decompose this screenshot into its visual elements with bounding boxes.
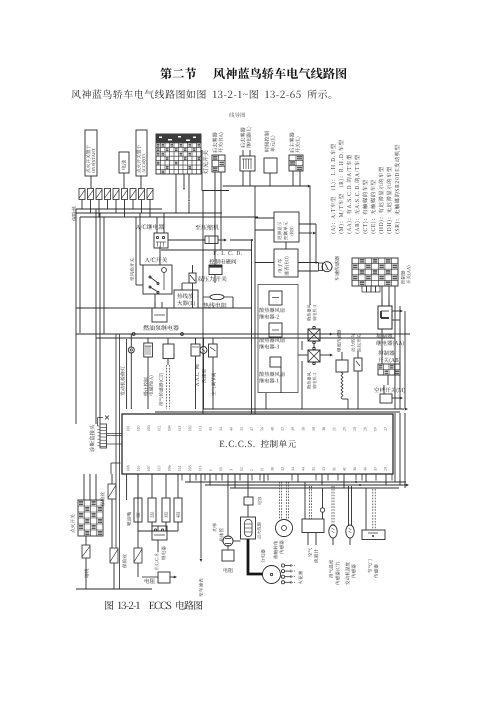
fuse F2 <box>88 189 94 200</box>
label inhibitor switch line1 抑制器 <box>378 350 394 355</box>
wires relay drops <box>243 171 250 186</box>
wire left trunk 2 <box>79 217 81 333</box>
label AAC valve A.A.C.阀 <box>195 365 199 386</box>
label air regulator 空气调节阀 <box>211 373 215 396</box>
wires bottom fuse connections <box>114 474 138 589</box>
wire F11 to bus <box>85 558 87 589</box>
label A/C relay <box>136 224 164 230</box>
fuse bottom F12 <box>110 548 118 563</box>
label fan relay-3 line2 <box>259 344 279 349</box>
wire right trunk x400 <box>399 306 401 409</box>
wire ps drop <box>357 371 359 409</box>
label distributor 分电器 <box>261 549 265 563</box>
injector cylinder 2 <box>148 474 156 531</box>
wires G3 drops <box>293 171 300 186</box>
wire trunk x310 <box>309 186 311 305</box>
switch grid ignition switch <box>78 500 103 536</box>
wire left trunk 1 <box>75 209 77 424</box>
relay rear defogger relay L <box>240 127 255 171</box>
distributor cap circle <box>263 566 281 584</box>
label to fan switch 至风扇开关 <box>130 258 134 281</box>
capacitor near coil <box>244 474 253 517</box>
bus wire lighting horizontal <box>223 185 311 188</box>
legend line 2 <box>339 140 345 233</box>
label idle-stop 2col <box>144 376 154 396</box>
sensor crank angle sensor <box>276 482 293 537</box>
box ignition switch ON/START <box>85 130 97 176</box>
wire ign grid drop 1 <box>85 536 87 545</box>
transistor power transistor <box>223 474 241 546</box>
wires fan motor arrows <box>298 333 333 357</box>
label fan relay-1 line1 <box>259 372 284 377</box>
valve air regulator 空气调节阀 <box>209 338 218 409</box>
fuse/connector matrix table <box>156 134 201 174</box>
label power transistor vertical <box>212 523 223 542</box>
switch grid rear defogger switch RA <box>212 132 225 172</box>
label to compressor 至压缩机 <box>195 224 219 230</box>
label fan relay-2 line2 <box>259 314 279 319</box>
switch A/C switch box <box>143 265 172 294</box>
wires ECCS to ignition grid <box>84 474 96 500</box>
label inhibitor relay line1 抑制器 <box>376 333 392 338</box>
box electronic speedometer EO <box>274 249 298 277</box>
label control solenoid 控制电磁阀 <box>209 259 236 264</box>
label 灯光开关 light switch <box>203 150 209 174</box>
meter air flow meter <box>302 482 325 545</box>
wires ECCS bottom stubs <box>182 474 392 481</box>
injector cylinder 3 <box>162 474 170 531</box>
legend line 1 <box>331 144 337 233</box>
caption 图13-2-1 ECCS电路图 <box>105 601 202 610</box>
wire time unit drop <box>269 173 271 186</box>
injector cylinder 4 <box>174 474 182 531</box>
wire box-to-fuse A <box>90 176 92 188</box>
sensor exhaust sensor CT <box>163 338 174 365</box>
box time control unit L <box>264 131 277 173</box>
wire light switch drop <box>201 150 203 191</box>
fuse F9 <box>147 189 153 200</box>
legend line 7 <box>379 167 385 234</box>
sensor vehicle speed sensor <box>319 256 340 281</box>
legend line 3 <box>347 155 353 234</box>
label 保险丝 upper <box>100 492 104 506</box>
label exhaust temp 2col <box>329 560 340 585</box>
bus wire above ECCS 2 <box>155 411 400 413</box>
label pump 洗涤泵 <box>202 369 206 383</box>
fuse below ECCS F10 <box>108 474 116 548</box>
bus wire below ECCS 2 <box>205 484 409 487</box>
box hysteresis display control unit RB <box>274 212 299 242</box>
fuse F4 <box>105 189 111 200</box>
pin numbers ECCS top row <box>127 425 387 431</box>
relay A/C relay <box>154 213 168 248</box>
sensor exhaust temperature CT <box>329 486 337 545</box>
resistor bottom box <box>142 572 177 583</box>
wire exhaust sensor shielded pair <box>167 365 170 409</box>
label ignition switch 点火开关 <box>70 514 74 532</box>
sensor engine temperature <box>346 486 354 545</box>
label fan motor-2 vertical <box>307 372 316 389</box>
label crank angle 2col <box>273 540 283 558</box>
fuse F7 <box>130 189 136 200</box>
label injectors 喷油嘴 <box>127 512 131 526</box>
wire left trunk 3 <box>95 209 97 424</box>
sensor knock sensor <box>336 352 348 372</box>
label air flow 2col <box>308 548 318 563</box>
fuse F1 <box>79 189 85 200</box>
label engine temp 2col <box>345 562 355 585</box>
fuse F5 <box>113 189 119 200</box>
IC ECCS control unit box <box>122 414 393 474</box>
legend line 6 <box>371 180 377 233</box>
relay radiator fan relay-3 <box>269 323 282 337</box>
switch grid rear defogger switch L <box>289 132 303 171</box>
wires inhibitor connections <box>382 310 403 385</box>
legend line 9 <box>394 145 400 233</box>
bus wire mid horizontal 1 <box>76 333 410 335</box>
wire to speedometer <box>200 474 203 562</box>
label 保险丝 bottom <box>122 554 126 568</box>
solenoid FICD valve <box>209 265 222 283</box>
coil ignition coil <box>241 517 256 539</box>
pump component circle <box>200 338 207 409</box>
bus wire horizontal 2 <box>76 212 222 214</box>
injector cylinder 1 <box>134 474 142 531</box>
label fan relay-3 line1 <box>259 338 284 343</box>
outline fan relay section <box>258 285 298 393</box>
fuse F3 <box>96 189 102 200</box>
small note 线导图 <box>229 112 245 117</box>
wires left vertical pair <box>116 334 120 589</box>
wire trunk x203 <box>202 191 204 415</box>
wires hysteresis connections <box>255 218 319 271</box>
box ignition switch ACC/ON <box>136 130 147 176</box>
label ignition coil 点火线圈 <box>257 522 261 538</box>
fuse F6 <box>122 189 128 200</box>
bus wire below ECCS 1 <box>185 481 406 483</box>
bus wire horizontal 1 <box>76 208 162 210</box>
legend line 4 <box>355 155 361 233</box>
switch dual pressure switch <box>189 265 196 290</box>
fuse bottom F11 <box>82 545 90 558</box>
fuse bottom F13 <box>134 548 142 563</box>
legend line 8 <box>387 167 393 234</box>
wires controller switch drops <box>382 286 395 409</box>
wires defogger feed drops <box>215 191 221 251</box>
wires A/C drops <box>155 247 233 309</box>
label 保险丝 fuses <box>72 206 77 221</box>
bus junction dots <box>355 481 361 486</box>
bus terminal circles <box>132 333 183 336</box>
spark plugs <box>281 564 296 584</box>
fuse F8 <box>139 189 145 200</box>
label resistor2 电阻 <box>224 568 233 573</box>
wire compressor trunk joint <box>230 239 253 241</box>
title 第二节 section heading <box>160 68 196 80</box>
bus wire lighting horizontal 2 <box>202 190 229 192</box>
connector to compressor <box>205 236 227 244</box>
label to speedometer 至车速表 <box>199 578 203 596</box>
title main heading 风神蓝鸟轿车电气线路图 <box>213 68 346 80</box>
label dual pressure switch 双压力开关 <box>197 276 227 282</box>
wire knock shielded <box>341 372 348 409</box>
wire injector common <box>138 526 178 531</box>
label neutral switch 空档开关(M) <box>374 387 405 393</box>
wire box-to-fuse B <box>123 173 125 188</box>
label hot wire resistor 热线电阻 <box>203 302 227 308</box>
relay fuel pump relay <box>152 302 167 322</box>
wire coil to distributor thick <box>248 539 263 574</box>
label hot wire amp line2 大器(L) <box>177 300 195 306</box>
connector diagnostic box <box>98 416 123 475</box>
wire right trunk to bus <box>395 413 405 488</box>
resistor hot wire 热线电阻 <box>203 294 233 299</box>
valve AAC valve <box>191 338 200 409</box>
wire right trunk x405 <box>404 311 406 409</box>
label A/C switch <box>145 257 167 263</box>
wire trunk x255 <box>254 186 256 414</box>
wire FICD bus <box>161 250 252 265</box>
wires A/C switch feed <box>136 213 143 285</box>
label diagnostic connector 诊断盒接头 <box>89 425 94 452</box>
label inhibitor relay line2 继电器(AA) <box>376 340 404 346</box>
wires fuse drops to bus <box>82 200 150 218</box>
wire left trunk 4 <box>99 213 101 424</box>
wire box-to-fuse C <box>140 176 142 188</box>
label inhibitor switch line2 开关(AB) <box>378 357 400 363</box>
controller grid hanging cells <box>362 286 380 292</box>
wire left trunk 5 <box>103 217 105 334</box>
label spark plugs 火花塞 <box>298 571 302 584</box>
motor radiator fan motor-2 <box>308 347 320 364</box>
label fan motor-1 vertical <box>307 304 316 321</box>
wire misc mid vertical <box>126 339 128 409</box>
label capacitor 电容 <box>258 497 262 505</box>
label knock sensor 爆震传感器 <box>337 330 341 352</box>
bus wire above ECCS 1 <box>203 408 408 411</box>
relay ECCS relay <box>152 526 167 552</box>
motor radiator fan motor-1 <box>308 326 320 343</box>
label ECCS relay vertical <box>155 546 166 569</box>
relay radiator fan relay-1 <box>270 357 281 367</box>
label fuel pump relay 燃油泵继电器 <box>143 325 179 331</box>
solenoid idle-stop control valve A <box>144 338 153 409</box>
bus wire below ECCS 3 <box>230 487 399 489</box>
label fan relay-2 line1 <box>259 308 284 313</box>
label throttle 2col <box>368 560 378 578</box>
label exhaust sensor 排气传感器(CT) <box>159 373 164 406</box>
legend line 5 <box>363 180 369 233</box>
wire AC relay to compressor <box>168 239 205 241</box>
label power steering 2col <box>351 334 361 352</box>
wires fan section drops <box>266 361 302 409</box>
switch grid controller switch AA <box>352 258 411 286</box>
text E.C.C.S. 控制单元 <box>219 440 295 448</box>
label resistor 电阻 <box>145 578 155 583</box>
wires matrix drop arrows <box>176 174 190 213</box>
label hot wire amp line1 热线放 <box>177 293 193 298</box>
box hot wire amplifier L <box>174 290 198 308</box>
bus wire horizontal 3 <box>80 216 258 218</box>
label fan relay-1 line2 <box>259 378 278 383</box>
box battery 电池 <box>119 152 129 173</box>
bus wire mid horizontal 2 <box>96 337 395 339</box>
intro paragraph <box>71 90 331 99</box>
pin numbers ECCS bottom row <box>127 465 387 470</box>
label F.I.C.D. <box>213 251 241 255</box>
relay radiator fan relay-2 <box>269 291 282 305</box>
wires ECCS bottom drops <box>190 474 386 488</box>
label fusible link 熔线 <box>84 569 88 578</box>
wires G2 drops <box>215 172 221 191</box>
bus wire bottom left <box>76 588 152 590</box>
switch power steering oil pressure switch <box>354 351 362 371</box>
wire trunk x251 <box>251 240 253 414</box>
sensor throttle position <box>362 488 385 540</box>
lamp engine check lamp <box>128 334 134 409</box>
resistor near coil <box>222 545 234 561</box>
relay inhibitor relay AA <box>378 299 392 329</box>
switch neutral switch M <box>380 385 403 403</box>
bus wire mid horizontal 0 <box>76 307 252 309</box>
switch grid inhibitor switch AB <box>378 364 400 375</box>
label engine check lamp 发动机检修灯 <box>120 366 125 396</box>
